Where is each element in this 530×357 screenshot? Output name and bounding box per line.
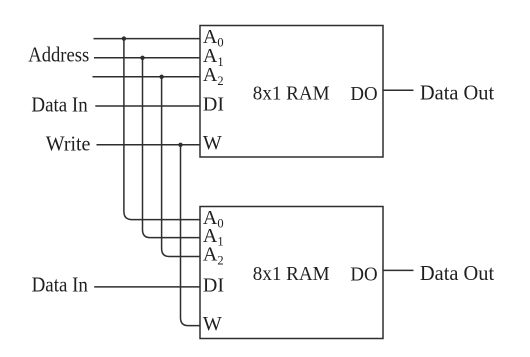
wire Address bit 2 stub to U1 A2 — [93, 76, 201, 78]
wire A1 branch down to U2 A1 — [143, 58, 201, 238]
wire Data In to U2 DI — [94, 286, 200, 288]
wire A0 branch down to U2 A0 — [124, 39, 200, 220]
junction dot on Write line — [178, 143, 182, 147]
wire Address bit 0 stub to U1 A0 — [94, 38, 201, 40]
svg-text:Data Out: Data Out — [420, 263, 495, 285]
wire Data In to U1 DI — [95, 105, 200, 107]
svg-text:Address: Address — [28, 45, 89, 67]
svg-text:DI: DI — [203, 274, 224, 296]
svg-text:8x1 RAM: 8x1 RAM — [253, 263, 330, 285]
RAM block U1 (top 8x1 RAM) — [200, 26, 383, 158]
svg-text:8x1 RAM: 8x1 RAM — [253, 82, 330, 104]
wire U1 DO output stub — [383, 89, 414, 91]
wire Write to U1 W — [97, 144, 201, 146]
svg-text:Data Out: Data Out — [420, 82, 495, 104]
svg-text:Data In: Data In — [31, 95, 87, 117]
svg-text:DO: DO — [350, 83, 377, 105]
svg-text:W: W — [203, 313, 222, 335]
svg-text:DO: DO — [350, 263, 377, 285]
wire U2 DO output stub — [383, 269, 414, 271]
junction dot on A2 line — [159, 75, 163, 79]
junction dot on A0 line — [122, 36, 126, 40]
wire Write branch down to U2 W — [181, 145, 201, 326]
svg-text:DI: DI — [203, 93, 224, 115]
wire A2 branch down to U2 A2 — [162, 77, 200, 257]
wire Address bit 1 stub to U1 A1 — [94, 57, 200, 59]
svg-text:Data In: Data In — [32, 275, 88, 297]
RAM block U2 (bottom 8x1 RAM) — [200, 207, 383, 339]
junction dot on A1 line — [140, 56, 144, 60]
svg-text:W: W — [203, 132, 222, 154]
svg-text:Write: Write — [46, 134, 91, 156]
